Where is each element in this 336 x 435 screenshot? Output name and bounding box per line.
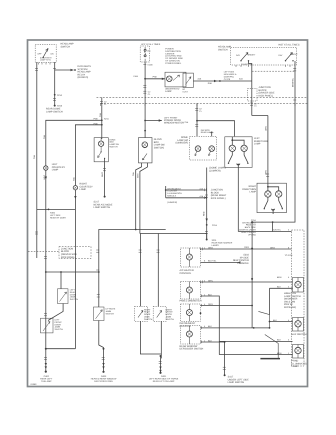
svg-text:LAMP SYS): LAMP SYS) (40, 59, 51, 62)
wire prnd brn pin (219, 354, 292, 356)
wire headlamp switch right lead (54, 62, 56, 106)
svg-text:BLK/YEL: BLK/YEL (208, 260, 217, 263)
wire drop left rear door switch (60, 272, 62, 289)
svg-text:S216: S216 (57, 94, 63, 97)
svg-text:BLK: BLK (208, 325, 213, 328)
headlamp switch contact (43, 49, 47, 57)
connector ticks C2 C1 (250, 103, 253, 105)
door switch merge to ground (140, 321, 161, 354)
svg-text:DAY: DAY (236, 54, 241, 57)
connector tick (53, 68, 56, 70)
svg-text:TAILLAMP: TAILLAMP (41, 380, 52, 383)
svg-text:KICK PANEL): KICK PANEL) (259, 94, 274, 97)
svg-text:4: 4 (288, 228, 290, 231)
connector tick C201 (35, 69, 38, 71)
right park bulb 2 (276, 191, 282, 197)
svg-text:BLK/YEL: BLK/YEL (273, 228, 282, 231)
svg-text:LAMP: LAMP (292, 365, 299, 368)
instrument cluster dashed box (181, 304, 201, 321)
defogger bulb (186, 331, 192, 337)
splice S216 (54, 94, 56, 96)
svg-text:SWITCH: SWITCH (70, 298, 79, 301)
svg-text:(RUN/LO): (RUN/LO) (78, 76, 89, 79)
svg-text:TO FOG: TO FOG (285, 254, 293, 257)
wire drop right front door jamb (157, 234, 159, 307)
svg-text:PNK: PNK (94, 122, 99, 125)
left park inner bus (232, 137, 244, 145)
connector ticks dimmer (293, 69, 296, 71)
svg-text:SWITCH: SWITCH (192, 299, 202, 302)
wire drop right rear door jamb (139, 234, 141, 307)
wire interior lamp rail (249, 61, 252, 116)
svg-text:TAN: TAN (99, 112, 102, 117)
left courtesy lamp L1 (44, 166, 48, 170)
left park bottom leads (229, 152, 248, 163)
right courtesy lamp L2 (73, 186, 77, 190)
svg-text:41383: 41383 (30, 383, 37, 386)
glove box lamp box (139, 138, 153, 163)
prnd lamp box (293, 345, 304, 359)
svg-text:TAN: TAN (43, 134, 46, 139)
svg-text:C1: C1 (254, 105, 256, 108)
svg-text:WINDOW MOTOR: WINDOW MOTOR (164, 121, 184, 124)
svg-text:C100: C100 (148, 64, 154, 67)
svg-text:SWITCH: SWITCH (61, 45, 71, 48)
connector ticks (139, 250, 142, 252)
wire cluster illumination tap (193, 80, 251, 82)
svg-text:REAR LAMP: REAR LAMP (201, 131, 214, 134)
wire dome courtesy feed (101, 98, 103, 140)
wire branch to left park (197, 121, 235, 137)
right park inner bus (268, 183, 279, 191)
glove box lamp bulb (142, 142, 148, 148)
fog lamp switch box (293, 278, 304, 293)
splice S401 (160, 355, 162, 357)
haz bulb (295, 321, 301, 327)
wire dome jumper return (99, 230, 166, 308)
svg-text:BLK: BLK (277, 286, 282, 289)
svg-text:CLST8: CLST8 (224, 78, 231, 81)
connector C2/C1 ticks on fuse wire (143, 86, 146, 88)
wire blkyel right top (238, 231, 291, 233)
cig lighter bulb (186, 287, 192, 293)
svg-text:LAMP SWITCH: LAMP SWITCH (228, 381, 245, 384)
dome sunroof bulb 1 (195, 146, 201, 152)
dome sunroof feed wire (196, 103, 198, 136)
switch contact left (241, 53, 248, 61)
svg-text:C1: C1 (199, 110, 201, 113)
svg-text:TAN: TAN (132, 172, 135, 176)
switch contact right (286, 53, 293, 61)
haz switch box (293, 318, 304, 332)
svg-text:SWITCH: SWITCH (109, 146, 118, 149)
connector C2/C1 ticks (100, 102, 103, 104)
svg-text:MODULE: MODULE (167, 195, 177, 198)
svg-text:BRIGHT: BRIGHT (290, 53, 298, 56)
connector corner ticks on separator (101, 103, 295, 106)
svg-text:BRN/YEL: BRN/YEL (292, 77, 295, 87)
wire right park turn feed (267, 116, 269, 184)
splice S316 (251, 248, 253, 250)
svg-text:SWITCH: SWITCH (218, 48, 228, 51)
svg-text:HOT AT ALL TIMES: HOT AT ALL TIMES (141, 43, 161, 46)
svg-text:LAMP: LAMP (165, 90, 172, 93)
wire defogger brn pin to S417 (201, 342, 225, 375)
underhood lamp box (165, 72, 186, 87)
svg-text:CONSOLE: CONSOLE (237, 262, 249, 265)
svg-text:DEFOGGER GRID: DEFOGGER GRID (94, 380, 113, 383)
svg-text:REAR OF DASH: REAR OF DASH (50, 216, 66, 219)
svg-text:BLK: BLK (277, 339, 282, 342)
right park bottom leads (264, 197, 282, 208)
connector ticks (44, 314, 47, 316)
DRL arrow (71, 69, 74, 71)
svg-text:I/P DIM): I/P DIM) (248, 233, 256, 236)
dashed separator bulkhead B (101, 102, 308, 104)
svg-text:DEFOGGER SWITCH: DEFOGGER SWITCH (180, 348, 204, 351)
connector ticks (195, 109, 198, 111)
svg-text:PNK: PNK (208, 82, 213, 85)
dome lamp sunroof dashed box (190, 136, 217, 160)
instrument cluster arrow box (183, 73, 193, 87)
connector ticks lower (195, 125, 198, 127)
dome lamp box (94, 138, 108, 162)
svg-text:BRN: BRN (277, 352, 282, 355)
dome lamp bulb (98, 141, 103, 146)
connector ticks on courtesy line (44, 256, 47, 258)
ground G401 (160, 356, 162, 373)
splice S403 (103, 348, 105, 350)
ground G403 (102, 358, 105, 360)
right courtesy lamp lead down (74, 190, 76, 349)
wire org branch cig (201, 281, 253, 283)
svg-text:15 A: 15 A (147, 50, 152, 53)
svg-text:C1: C1 (148, 93, 151, 96)
dome sunroof bulb 2 (209, 146, 215, 152)
fuse element (144, 47, 146, 62)
svg-text:HAZ SWITCH: HAZ SWITCH (292, 333, 307, 336)
svg-text:SUNROOF): SUNROOF) (175, 142, 188, 145)
diagonal wire to blk junction (258, 311, 269, 328)
svg-text:SWITCH): SWITCH) (154, 146, 164, 149)
splice S402 (45, 348, 47, 350)
svg-text:HOT AT ALL TIMES: HOT AT ALL TIMES (279, 44, 300, 47)
glove box lamp feed dot (144, 131, 146, 138)
svg-text:OFF: OFF (38, 53, 43, 56)
splice dot S210 (196, 120, 198, 122)
connector ticks above liftgate (97, 295, 100, 297)
svg-text:KICK PANEL): KICK PANEL) (61, 256, 76, 259)
rear lamps feed RED (206, 168, 208, 240)
connector ticks at junction block (35, 232, 38, 234)
wire courtesy branch to door switches (46, 271, 99, 273)
svg-text:BLK: BLK (273, 319, 278, 322)
svg-text:(JUMPER): (JUMPER) (209, 169, 221, 172)
svg-text:C1: C1 (104, 103, 106, 106)
wire branch left courtesy (46, 120, 102, 166)
dashed separator bulkhead A (97, 97, 308, 99)
splice S314 (251, 221, 253, 223)
svg-text:(JUMPER): (JUMPER) (167, 201, 177, 204)
svg-text:SWITCH: SWITCH (144, 318, 153, 321)
svg-text:BRN: BRN (277, 276, 282, 279)
svg-text:GRN: GRN (265, 170, 268, 175)
splice S211 (101, 119, 103, 121)
splice S417 (224, 374, 226, 376)
left rear door jamb switch box (58, 289, 69, 304)
wire panel dim blk pin to blk vertical (201, 296, 220, 328)
wire to underhood lamp (145, 78, 165, 80)
dome lamp switch contact (101, 151, 102, 152)
svg-text:KICK PANEL): KICK PANEL) (211, 197, 226, 200)
svg-text:SWITCH: SWITCH (55, 328, 64, 331)
svg-text:21A: 21A (185, 121, 189, 124)
svg-text:S104: S104 (133, 75, 139, 78)
svg-text:TAN: TAN (73, 177, 76, 181)
glove box switch contact (143, 154, 148, 161)
ac heater control dashed box (181, 248, 201, 267)
thick return segment (260, 358, 280, 360)
dome sunroof second lead stub (211, 132, 213, 137)
cluster bulb (186, 310, 192, 316)
glove pair junction to center wires (99, 229, 136, 231)
wire blkyel arrow branch (201, 261, 241, 263)
dome lamp lead down (104, 158, 106, 196)
right front door jamb switch dashed box (153, 306, 166, 321)
splice S104 (144, 78, 146, 80)
liftgate jamb switch box (94, 307, 105, 321)
svg-text:A16: A16 (239, 78, 244, 81)
connector ticks on return (96, 250, 99, 252)
wire defogger blk pin joins bus (201, 327, 220, 329)
connector ticks (266, 174, 269, 176)
svg-text:PNK: PNK (153, 76, 158, 79)
svg-text:LAMP SWITCH: LAMP SWITCH (46, 111, 63, 114)
svg-text:A16: A16 (198, 78, 203, 81)
svg-text:LAMPS: LAMPS (212, 244, 220, 247)
svg-text:COURTESY: COURTESY (241, 63, 253, 66)
wire branch right courtesy (75, 125, 101, 186)
courtesy return bus (37, 208, 76, 210)
wire fuse output (144, 62, 146, 131)
dimmer rail ORG (251, 222, 253, 328)
svg-text:POWER PANEL: POWER PANEL (165, 62, 182, 65)
junction block dashed box (248, 89, 258, 102)
prnd bulb (295, 347, 301, 353)
left rear door switch exit (48, 304, 63, 321)
right rear door jamb switch dashed box (135, 306, 148, 321)
svg-text:LAMP: LAMP (254, 143, 261, 146)
connector pin row under headlamp switch (39, 63, 55, 65)
dome sunroof case arrows (195, 151, 197, 156)
connector tick C100 (143, 64, 146, 66)
svg-text:DAY: DAY (279, 54, 284, 57)
svg-text:ORG: ORG (208, 246, 213, 249)
svg-text:GRN: GRN (265, 126, 268, 131)
right park case ground (272, 209, 275, 214)
junction block left dashed outline (59, 247, 91, 259)
headlamp switch HS1 dashed box (35, 45, 56, 63)
tall dashed instrument panel box (292, 230, 305, 366)
pin ticks cig (200, 280, 202, 283)
pin ticks ac (200, 247, 202, 250)
svg-text:SWITCH: SWITCH (106, 312, 115, 315)
wire branch power window (145, 120, 162, 122)
svg-text:LAMP: LAMP (249, 191, 256, 194)
wire left park ground drop (237, 170, 239, 232)
svg-text:PACKAGE): PACKAGE) (284, 306, 296, 309)
connector ticks S417 wire (223, 367, 226, 369)
connector pin row under interior switch (236, 65, 290, 67)
diagonal haz to thick (265, 335, 278, 359)
wire prnd blk pin (219, 340, 292, 342)
svg-text:ORG: ORG (270, 246, 275, 249)
svg-text:CONTROL: CONTROL (180, 272, 192, 275)
wire org branch ac control (201, 248, 292, 250)
wire fog blk pin (270, 287, 293, 289)
left park bulb 1 (229, 145, 235, 151)
headlamp switch terminals (43, 57, 44, 58)
wire fog brn pin (252, 281, 292, 283)
svg-text:S314: S314 (212, 224, 218, 227)
svg-text:RED: RED (203, 211, 206, 216)
node dot rear dome lamp switch (54, 105, 56, 107)
glove box lamp leads pair down (136, 163, 142, 230)
svg-text:CLST: CLST (183, 91, 189, 94)
underhood lamp bulb (167, 76, 173, 82)
svg-text:WHT: WHT (101, 172, 104, 177)
dashed junction block line top right (252, 70, 295, 72)
splice S217 dot (104, 196, 106, 198)
ground G402 (45, 349, 47, 372)
wire headlamp switch left lead (36, 62, 38, 258)
ac heater control bulb (186, 254, 192, 260)
interior lamp switch dashed box top right (231, 48, 297, 66)
svg-text:ORG: ORG (208, 303, 213, 306)
svg-text:4: 4 (288, 276, 290, 279)
wire center horizontal B (140, 234, 207, 240)
underhood lamp case arrow (173, 75, 180, 81)
svg-text:PANEL DIM: PANEL DIM (180, 299, 193, 302)
wire stub to right courtesy ground (46, 348, 76, 350)
left park case ground (237, 164, 240, 170)
wire branch to DRL relay (55, 69, 74, 71)
wire illum module stub (165, 186, 167, 198)
svg-text:BRIGHT: BRIGHT (248, 53, 256, 56)
connector ticks (103, 169, 106, 171)
splice S318 (251, 278, 253, 280)
connector arrow (74, 196, 76, 199)
left front door jamb switch box (41, 318, 54, 333)
right park turn lamp box (257, 183, 286, 212)
right park bulb 1 (265, 191, 271, 197)
left park bulb 2 (241, 145, 247, 151)
svg-text:GRN: GRN (208, 279, 213, 282)
cig lighter dashed box (181, 282, 201, 300)
svg-text:ON: ON (51, 53, 55, 56)
wire haz blk pin (270, 321, 293, 323)
dashed junction block line left (28, 251, 59, 253)
wire rail T branch (252, 115, 268, 117)
wire liftgate to ground (99, 321, 104, 372)
connector arrow (45, 177, 47, 180)
svg-text:BLK: BLK (208, 339, 213, 342)
svg-text:BLK: BLK (208, 293, 213, 296)
svg-text:SWITCH: SWITCH (166, 318, 175, 321)
svg-text:ORG: ORG (244, 246, 249, 249)
left park turn lamp box (225, 137, 252, 168)
node dot glove box feed (144, 120, 146, 122)
wire dimmer BRN/YEL (252, 61, 295, 222)
svg-text:PNK: PNK (94, 118, 99, 121)
svg-text:LAMP SWITCH: LAMP SWITCH (94, 206, 111, 209)
svg-text:WHT: WHT (137, 173, 140, 178)
svg-text:TAN: TAN (33, 154, 36, 159)
svg-text:WHT: WHT (43, 174, 46, 179)
fog lamp bulb (295, 281, 301, 287)
wire illum module out B (166, 197, 206, 199)
connector C2/C1 ticks (53, 98, 56, 100)
svg-text:LAMP: LAMP (52, 169, 59, 172)
svg-text:S211: S211 (104, 118, 110, 121)
splice S212 (101, 124, 103, 126)
wire illum module out A (166, 189, 206, 191)
svg-text:CLUSTER: CLUSTER (180, 325, 191, 328)
fuse F1 dashed box (140, 46, 149, 62)
blk ground bus (219, 327, 269, 329)
svg-text:REAR LIFT ON LAMP: REAR LIFT ON LAMP (153, 380, 175, 383)
svg-text:LAMP: LAMP (80, 188, 87, 191)
border frame (28, 40, 308, 387)
left courtesy lamp lead down (45, 170, 47, 349)
rear defogger switch dashed box (181, 326, 201, 344)
